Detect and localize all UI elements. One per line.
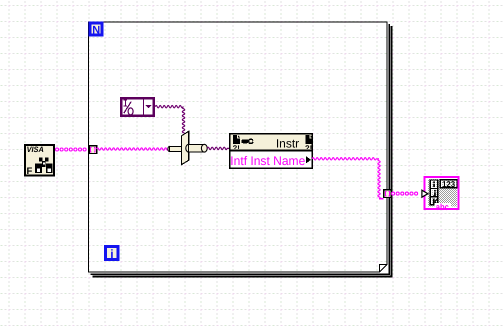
- property node Instr / Intf Inst Name: [230, 134, 313, 169]
- svg-text:?!: ?!: [233, 143, 240, 152]
- wire: VISA resource from VISA Open to property node: [207, 147, 229, 149]
- svg-text:?!: ?!: [305, 143, 312, 152]
- svg-text:Instr: Instr: [276, 136, 299, 150]
- auto-indexing output tunnel []: [384, 190, 392, 198]
- wire: string from property node to output tunnel: [312, 158, 379, 160]
- wire: string from input tunnel to VISA Open: [97, 148, 170, 150]
- wire: string-array from output tunnel to array indicator: [392, 192, 418, 195]
- svg-text:VISA: VISA: [27, 145, 45, 154]
- wire: string-array from VISA Find Resource to input tunnel: [56, 148, 87, 151]
- loop iteration terminal i: [106, 247, 118, 261]
- auto-indexing input tunnel []: [89, 146, 97, 154]
- svg-text:F: F: [27, 166, 33, 177]
- svg-text:Intf Inst Name: Intf Inst Name: [230, 154, 305, 168]
- loop count terminal N: [90, 23, 102, 37]
- VISA session I/O ring constant: [121, 98, 154, 116]
- svg-text:abc: abc: [436, 202, 449, 212]
- for-loop frame: [89, 22, 392, 276]
- array of strings indicator: [422, 176, 460, 212]
- VISA Open node: [168, 131, 207, 164]
- svg-text:i: i: [110, 247, 113, 261]
- svg-text:123: 123: [442, 179, 455, 189]
- wire: VISA resource from I/O constant down to VISA Open: [155, 106, 183, 108]
- VISA Find Resource node: [25, 145, 54, 177]
- svg-text:N: N: [92, 25, 100, 37]
